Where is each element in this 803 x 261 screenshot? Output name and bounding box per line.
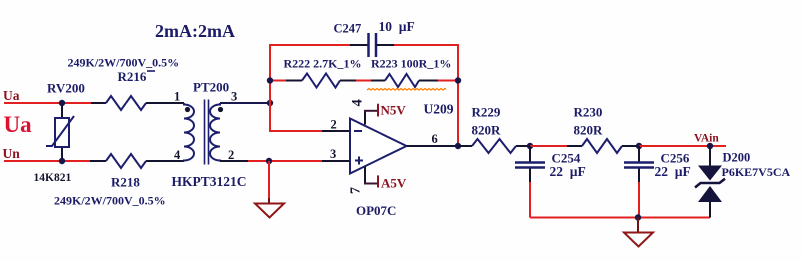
svg-text:OP07C: OP07C	[356, 203, 396, 218]
svg-text:22 µF: 22 µF	[550, 164, 586, 179]
resistor R218	[90, 154, 184, 168]
junction dot loop left	[267, 77, 273, 83]
svg-text:2mA:2mA: 2mA:2mA	[155, 21, 235, 41]
junction dot Un-RV200	[59, 158, 65, 164]
junction dot C254 tap	[527, 143, 533, 149]
wire feedback loop right side	[394, 45, 458, 146]
label R216 trailing dash	[147, 70, 155, 72]
svg-text:22 µF: 22 µF	[655, 164, 691, 179]
svg-text:D200: D200	[723, 151, 751, 165]
svg-text:10 µF: 10 µF	[379, 19, 415, 34]
svg-text:Ua: Ua	[3, 88, 20, 103]
wire bottom rail right	[530, 217, 710, 219]
svg-text:14K821: 14K821	[34, 172, 72, 184]
svg-text:820R: 820R	[574, 123, 604, 138]
svg-text:Un: Un	[3, 146, 21, 161]
svg-text:3: 3	[231, 90, 237, 104]
wire op-amp pin3 lead	[322, 160, 350, 162]
capacitor C256	[624, 146, 654, 218]
svg-text:R218: R218	[111, 175, 140, 190]
junction dot C256 tap	[636, 143, 642, 149]
wire bottom rail red	[248, 160, 322, 162]
junction dot pin3 node	[267, 100, 273, 106]
capacitor C247	[350, 33, 394, 57]
svg-text:C247: C247	[334, 22, 362, 36]
orange squiggle under R223	[367, 89, 446, 91]
resistor R222	[270, 74, 371, 88]
svg-text:PT200: PT200	[193, 80, 229, 95]
svg-text:R222 2.7K_1%: R222 2.7K_1%	[284, 57, 362, 71]
op-amp output wire pin 6	[407, 145, 459, 147]
ground right	[624, 218, 653, 247]
svg-text:P6KE7V5CA: P6KE7V5CA	[722, 165, 791, 179]
op-amp power stub bottom pin 7	[364, 167, 378, 188]
junction dot bottom rail	[635, 214, 641, 220]
junction dot output	[455, 143, 461, 149]
svg-text:1: 1	[174, 90, 180, 104]
junction dot D200 tap	[707, 143, 713, 149]
junction dot ground tap	[266, 158, 272, 164]
svg-text:U209: U209	[424, 102, 454, 117]
ground left	[255, 161, 284, 218]
svg-text:VAin: VAin	[694, 133, 719, 145]
resistor R230	[567, 139, 639, 153]
junction dot loop right	[455, 77, 461, 83]
svg-text:R230: R230	[574, 104, 603, 119]
op-amp U209 triangle	[350, 119, 407, 174]
varistor RV200	[46, 103, 74, 161]
TVS diode D200	[695, 146, 725, 218]
svg-text:249K/2W/700V_0.5%: 249K/2W/700V_0.5%	[54, 194, 166, 208]
wire Un bottom	[4, 160, 90, 162]
resistor R216	[91, 96, 184, 110]
capacitor C254	[515, 146, 545, 218]
resistor R229	[458, 139, 530, 153]
svg-text:HKPT3121C: HKPT3121C	[172, 174, 247, 189]
resistor R223	[371, 74, 458, 87]
transformer PT200	[184, 100, 223, 165]
op-amp pin2 lead	[322, 130, 350, 132]
svg-text:3: 3	[330, 147, 336, 161]
svg-text:Ua: Ua	[4, 112, 33, 137]
svg-text:2: 2	[331, 118, 337, 132]
svg-text:7: 7	[349, 187, 364, 194]
svg-text:6: 6	[432, 132, 438, 146]
svg-text:N5V: N5V	[381, 103, 407, 118]
svg-text:A5V: A5V	[381, 176, 407, 191]
svg-text:249K/2W/700V_0.5%: 249K/2W/700V_0.5%	[68, 56, 180, 70]
svg-text:2: 2	[228, 148, 234, 162]
wire feedback loop	[270, 45, 350, 131]
wire rail red right	[639, 145, 726, 147]
wire transformer pin2 lead	[220, 160, 248, 162]
wire Ua top	[4, 102, 91, 104]
op-amp power stub top pin 4	[364, 104, 378, 125]
svg-text:R229: R229	[472, 104, 501, 119]
svg-text:R223 100R_1%: R223 100R_1%	[371, 57, 451, 71]
junction dot Ua-RV200	[59, 100, 65, 106]
svg-text:4: 4	[174, 148, 181, 162]
svg-text:820R: 820R	[472, 123, 502, 138]
svg-text:R216: R216	[118, 69, 147, 84]
svg-text:RV200: RV200	[47, 81, 85, 96]
svg-text:4: 4	[349, 99, 365, 106]
wire rail red mid	[530, 145, 567, 147]
wire transformer pin3 to node	[220, 102, 270, 104]
